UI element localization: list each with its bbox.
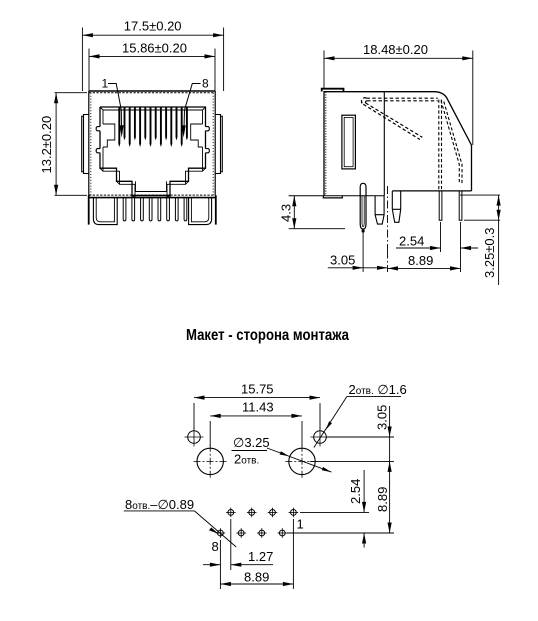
svg-text:2.54: 2.54 (348, 479, 363, 504)
shield leg loop (360, 183, 366, 229)
bottom-left foot step (323, 196, 342, 198)
socket opening outer outline (100, 107, 206, 197)
loop centerline ext (362, 231, 364, 272)
side slot (342, 115, 356, 169)
dimension 3.05 vertical (389, 406, 391, 461)
side body left dotted face (325, 92, 327, 196)
svg-text:15.86±0.20: 15.86±0.20 (122, 41, 187, 56)
left wide leg (93, 198, 117, 225)
left latch knob upper (96, 127, 100, 131)
front body right edge (214, 91, 216, 196)
right flange (215, 115, 222, 174)
bottom tab inner (136, 181, 167, 191)
dimension 8.89 bottom (220, 583, 293, 585)
svg-text:3.25±0.3: 3.25±0.3 (482, 227, 497, 278)
svg-text:1.27: 1.27 (248, 549, 273, 564)
hidden dashed vertical pair back (439, 100, 442, 191)
svg-text:8отв.–∅0.89: 8отв.–∅0.89 (125, 497, 194, 512)
dimension 2.54 side (396, 247, 478, 249)
dimension 11.43 (210, 416, 302, 447)
big hole left (194, 445, 228, 478)
dimension 15.75 (194, 398, 320, 429)
big hole right (285, 445, 318, 478)
big holes row ext to right (310, 460, 394, 462)
locating peg right (392, 191, 400, 222)
left shield edge below (88, 195, 90, 224)
hole1col ext down (230, 519, 232, 570)
right latch knob lower (206, 149, 210, 153)
hidden dashed diagonal pair (363, 103, 422, 140)
svg-text:8: 8 (202, 77, 209, 91)
svg-text:∅3.25: ∅3.25 (233, 435, 270, 450)
front body hidden dashed top (89, 92, 215, 94)
dimension 3.05 (328, 267, 388, 269)
svg-text:13.2±0.20: 13.2±0.20 (39, 116, 54, 174)
pin holes row1 (226, 508, 298, 518)
dimension 2.54 vertical (363, 470, 365, 548)
small holes row ext to right (327, 436, 394, 438)
front body top edge solid (89, 90, 215, 92)
left latch knob lower (96, 149, 100, 153)
svg-text:3.05: 3.05 (375, 405, 390, 430)
dimension 13.2 (55, 93, 88, 196)
dimension 18.48 (324, 51, 473, 146)
svg-text:1: 1 (102, 77, 109, 91)
small hole left (185, 428, 204, 447)
svg-text:2отв. ∅1.6: 2отв. ∅1.6 (349, 382, 407, 397)
front body dotted inner left (90, 93, 92, 195)
top-left step (322, 89, 344, 92)
contact pin row 2 (459, 191, 462, 220)
dimension 8.89 side (388, 251, 461, 273)
svg-text:3.05: 3.05 (330, 253, 355, 268)
right latch knob upper (206, 127, 210, 131)
contact pin row 1 (439, 191, 442, 220)
right inner latch block (191, 124, 203, 147)
svg-text:8.89: 8.89 (244, 570, 269, 585)
hole1 top row col ext down (292, 519, 294, 589)
dimension 17.5 (82, 28, 223, 92)
front body dotted inner right (212, 93, 214, 195)
hole1 row ext to right (300, 511, 369, 513)
right shield edge below (215, 195, 217, 224)
left inner latch block (103, 124, 115, 147)
socket chamfer corners (100, 107, 206, 198)
peg centerline chain (387, 186, 389, 251)
svg-text:11.43: 11.43 (242, 400, 274, 415)
svg-text:18.48±0.20: 18.48±0.20 (363, 42, 428, 57)
contact tails (123, 198, 187, 221)
hole2 row ext to right (287, 532, 394, 534)
contact comb pins (118, 107, 188, 147)
side body outline (324, 92, 472, 196)
svg-text:2.54: 2.54 (399, 234, 424, 249)
dimension 4.3 (289, 196, 345, 229)
socket inner chamfer outline (103, 110, 203, 197)
housing split line (383, 92, 385, 196)
svg-text:2отв.: 2отв. (234, 452, 259, 467)
dimension 15.86 (89, 49, 215, 92)
front view body outline dashed (88, 91, 90, 196)
svg-text:17.5±0.20: 17.5±0.20 (124, 19, 182, 34)
hole8 ext down (219, 540, 221, 589)
pin ext lines for 2.54 (441, 222, 461, 272)
svg-text:8.89: 8.89 (375, 487, 390, 512)
left flange (82, 115, 89, 174)
pin holes row2 (216, 528, 288, 538)
right wide leg (189, 198, 212, 225)
pin 1 leader (108, 84, 122, 133)
hidden dashed contact curl (361, 98, 367, 104)
dimension 3.25 right (460, 195, 500, 285)
svg-text:8: 8 (212, 539, 219, 554)
leader for big holes (267, 448, 331, 472)
front body hidden dashed bottom (89, 194, 215, 196)
svg-text:15.75: 15.75 (241, 382, 274, 397)
pin 8 leader (184, 84, 201, 133)
dimension 8.89 vertical (389, 461, 391, 533)
svg-text:1: 1 (297, 517, 304, 532)
leader for small holes (314, 396, 347, 447)
hidden dashed: top horizontal pair (367, 98, 438, 101)
hidden dashed diagonal right (441, 101, 459, 184)
bottom edge right part (392, 190, 471, 192)
svg-text:8.89: 8.89 (408, 253, 433, 268)
legs top solid line (89, 197, 215, 199)
dimension 1.27 (203, 564, 273, 566)
locating peg left (375, 196, 384, 224)
svg-text:4.3: 4.3 (279, 204, 294, 222)
small hole right (311, 428, 330, 447)
svg-text:Макет - сторона монтажа: Макет - сторона монтажа (186, 327, 349, 344)
label underline (347, 395, 401, 397)
bottom tab lower edge (132, 195, 171, 197)
bottom edge left part (289, 195, 385, 197)
leader to hole 8 (194, 511, 236, 547)
